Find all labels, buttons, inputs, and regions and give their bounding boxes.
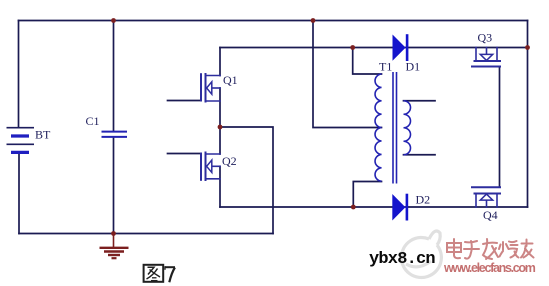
svg-text:ybx8.cn: ybx8.cn [369, 250, 435, 269]
svg-text:Q2: Q2 [222, 154, 237, 168]
svg-text:C1: C1 [86, 114, 100, 128]
svg-text:BT: BT [35, 128, 51, 142]
svg-text:D1: D1 [406, 60, 421, 74]
svg-text:www.elecfans.com: www.elecfans.com [443, 261, 536, 275]
svg-text:D2: D2 [416, 193, 431, 207]
svg-text:Q4: Q4 [483, 208, 498, 222]
svg-text:Q3: Q3 [478, 31, 493, 45]
svg-text:T1: T1 [379, 60, 392, 74]
svg-text:Q1: Q1 [223, 73, 238, 87]
